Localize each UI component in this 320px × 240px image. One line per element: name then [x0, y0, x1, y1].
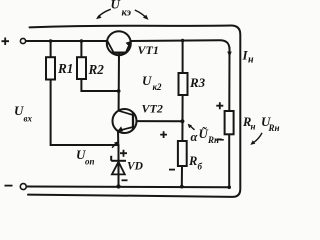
svg-text:вх: вх [24, 114, 33, 124]
svg-text:R2: R2 [88, 62, 105, 77]
svg-text:R1: R1 [57, 61, 73, 76]
svg-text:Rн: Rн [268, 123, 280, 133]
svg-text:Ũ: Ũ [199, 126, 209, 141]
svg-text:к2: к2 [153, 82, 163, 92]
svg-text:U: U [142, 73, 152, 88]
svg-text:U: U [111, 0, 121, 12]
svg-text:R3: R3 [189, 75, 206, 90]
svg-text:R: R [188, 154, 197, 168]
svg-text:н: н [251, 122, 256, 132]
svg-text:б: б [198, 162, 203, 172]
svg-text:VT1: VT1 [138, 43, 159, 57]
svg-text:оп: оп [85, 157, 95, 167]
svg-text:α: α [191, 130, 199, 144]
svg-text:VD: VD [127, 161, 144, 173]
svg-text:VT2: VT2 [142, 102, 163, 116]
svg-text:U: U [14, 103, 24, 118]
svg-text:н: н [248, 55, 254, 66]
svg-text:Rн: Rн [207, 135, 219, 145]
svg-text:кэ: кэ [122, 8, 132, 19]
